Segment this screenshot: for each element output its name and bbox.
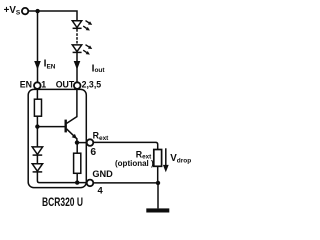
svg-text:GND: GND (92, 169, 113, 179)
svg-text:EN: EN (20, 80, 32, 90)
svg-text:Iout: Iout (92, 63, 106, 74)
svg-text:IEN: IEN (44, 59, 56, 71)
svg-text:2,3,5: 2,3,5 (82, 80, 102, 90)
svg-text:+VS: +VS (4, 5, 21, 16)
svg-text:OUT: OUT (56, 80, 75, 90)
svg-text:Rext: Rext (93, 131, 110, 142)
svg-text:6: 6 (90, 147, 96, 158)
svg-text:4: 4 (98, 185, 104, 196)
svg-text:Vdrop: Vdrop (170, 153, 191, 165)
svg-text:(optional ): (optional ) (115, 159, 154, 168)
svg-text:1: 1 (41, 80, 46, 90)
svg-text:BCR320 U: BCR320 U (42, 197, 83, 209)
